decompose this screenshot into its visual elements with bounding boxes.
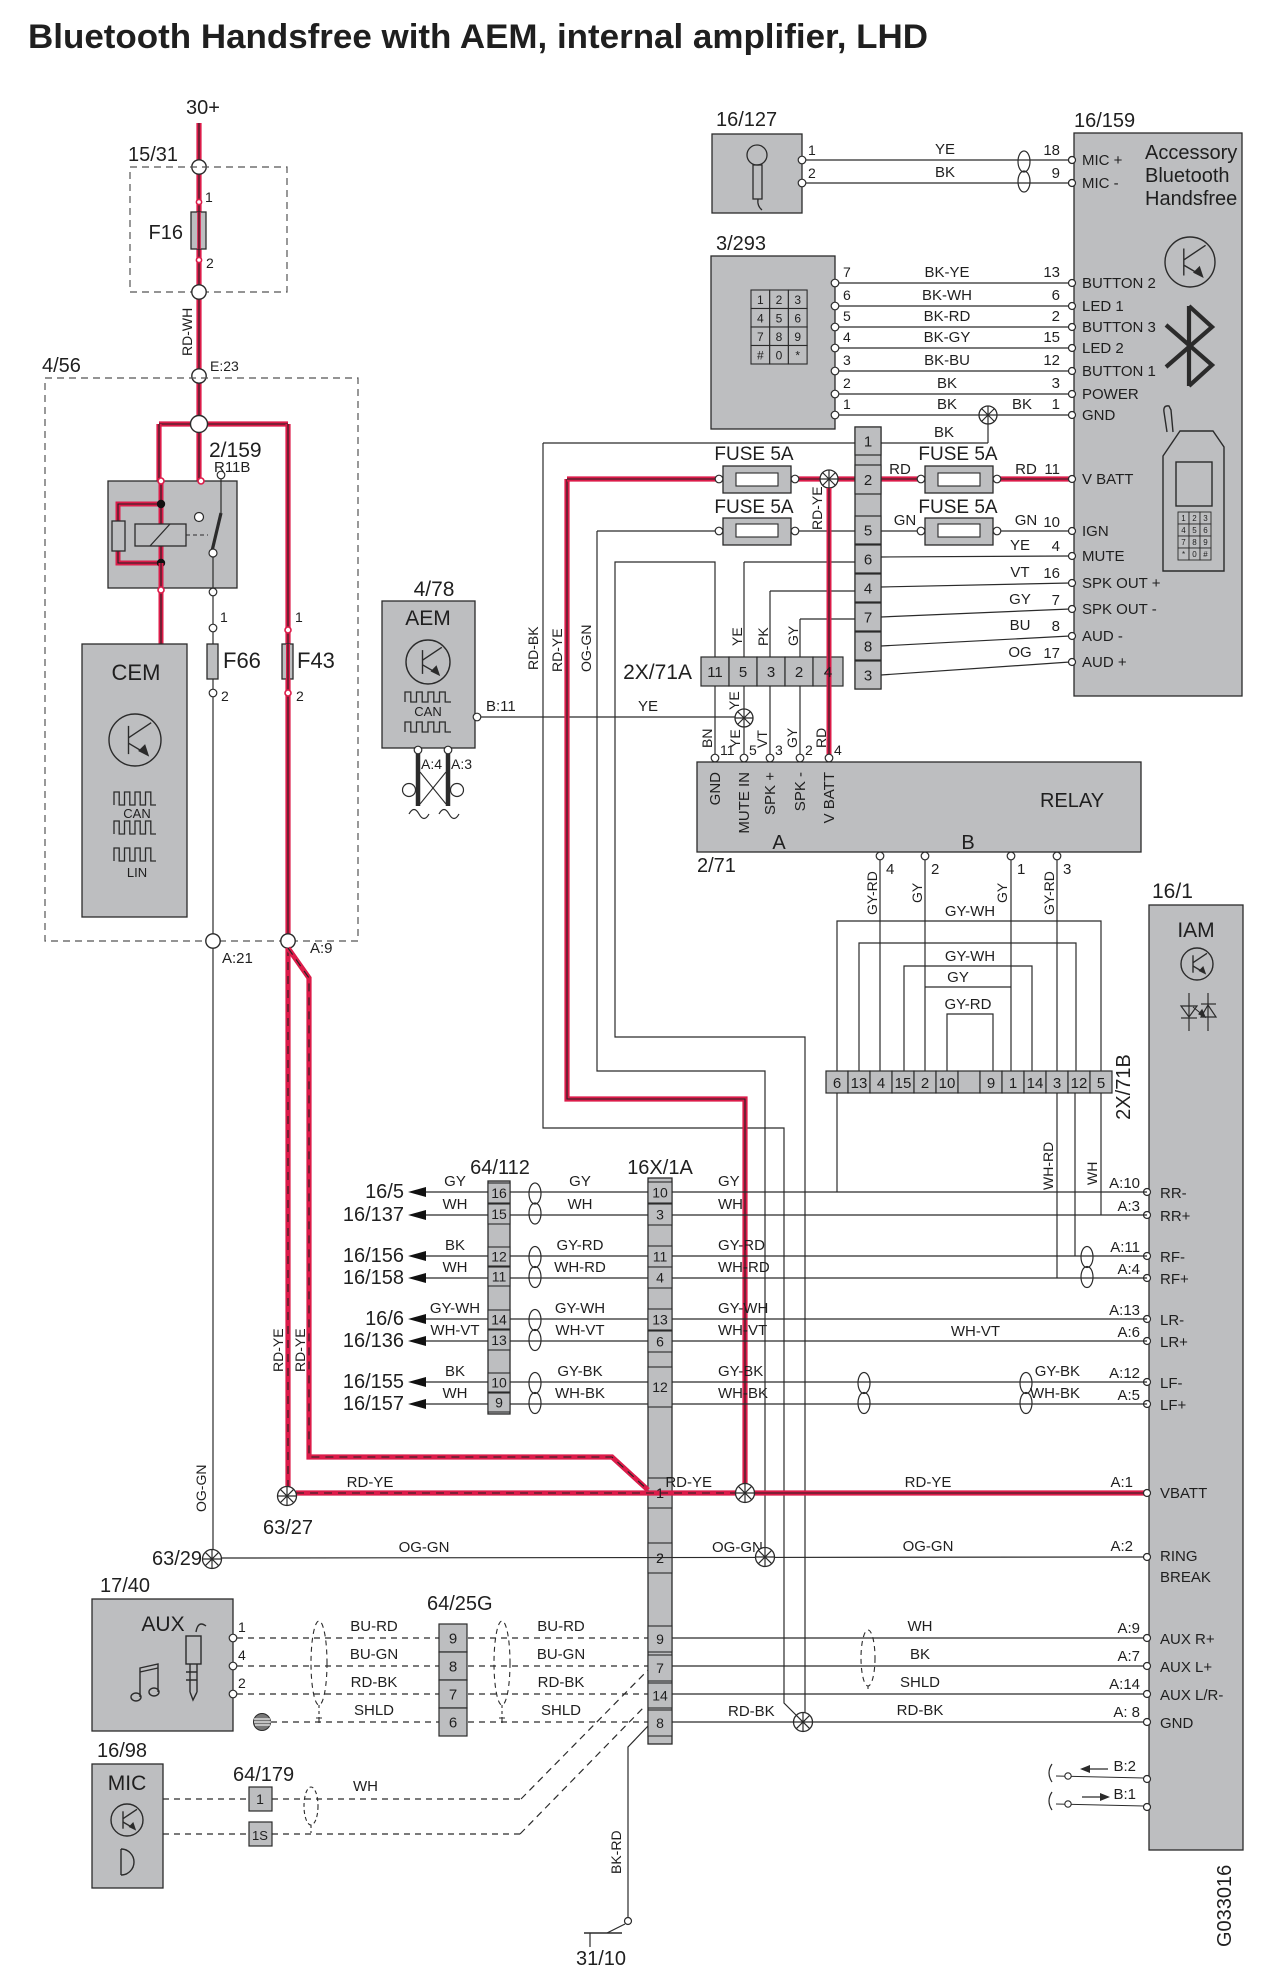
svg-text:6: 6 [1052, 287, 1060, 304]
svg-text:RD-BK: RD-BK [897, 1702, 944, 1719]
svg-text:GY-RD: GY-RD [1041, 871, 1057, 915]
relay pin R11B [217, 471, 225, 479]
svg-text:GND: GND [1160, 1715, 1194, 1732]
svg-text:A:9: A:9 [310, 940, 333, 957]
svg-text:BK: BK [935, 164, 955, 181]
svg-text:1: 1 [864, 434, 872, 451]
svg-text:2: 2 [921, 1075, 929, 1092]
16/127 pins [798, 156, 806, 164]
svg-text:9: 9 [1203, 538, 1208, 547]
svg-text:16/1: 16/1 [1152, 880, 1193, 903]
node A:9 [281, 934, 295, 948]
svg-text:RD-YE: RD-YE [809, 486, 825, 530]
red drop to relay pin4 [827, 488, 832, 757]
svg-text:A:11: A:11 [1110, 1239, 1140, 1256]
svg-text:BK: BK [1012, 396, 1032, 413]
svg-text:AUX L/R-: AUX L/R- [1160, 1687, 1223, 1704]
svg-text:LR+: LR+ [1160, 1334, 1188, 1351]
AUX dashed wires [237, 1637, 439, 1639]
relay suppressor resistor [112, 521, 125, 551]
splice RD-BK [794, 1713, 813, 1732]
svg-text:16/155: 16/155 [343, 1371, 404, 1393]
wire BN gnd vertical [615, 562, 805, 1722]
svg-text:4: 4 [864, 581, 872, 598]
wire IGN row [597, 530, 719, 532]
relay switch dashes [186, 534, 208, 536]
svg-text:A:6: A:6 [1117, 1324, 1140, 1341]
svg-text:AEM: AEM [405, 607, 451, 630]
svg-text:SPK +: SPK + [762, 772, 779, 815]
svg-text:GY-RD: GY-RD [864, 871, 880, 915]
svg-text:OG-GN: OG-GN [399, 1539, 450, 1556]
svg-text:A: A [772, 832, 786, 854]
relay B pins [876, 852, 884, 860]
svg-text:WH-VT: WH-VT [951, 1323, 1000, 1340]
relay bottom pins [158, 587, 164, 593]
svg-text:8: 8 [776, 330, 783, 344]
svg-text:11: 11 [720, 742, 735, 758]
svg-text:9: 9 [987, 1075, 995, 1092]
AEM CAN symbol [405, 692, 451, 702]
svg-text:BK: BK [937, 375, 957, 392]
svg-text:A:10: A:10 [1109, 1175, 1140, 1192]
svg-text:16: 16 [1043, 565, 1060, 582]
svg-text:A:21: A:21 [222, 950, 253, 967]
red trunk VBATT row [567, 476, 1070, 481]
svg-text:3: 3 [1052, 375, 1060, 392]
svg-text:GY: GY [444, 1173, 466, 1190]
svg-text:PK: PK [755, 627, 771, 646]
svg-text:RD-BK: RD-BK [538, 1674, 585, 1691]
svg-text:YE: YE [729, 627, 745, 646]
svg-text:10: 10 [939, 1075, 956, 1092]
wire MIC- BK [806, 182, 1070, 184]
svg-text:2: 2 [206, 255, 214, 271]
svg-text:9: 9 [656, 1631, 664, 1647]
svg-text:B:2: B:2 [1113, 1758, 1136, 1775]
svg-text:4: 4 [1052, 538, 1060, 555]
svg-text:6: 6 [794, 312, 801, 326]
svg-text:12: 12 [1043, 352, 1060, 369]
node on 15/31 top [192, 160, 206, 174]
svg-text:RR-: RR- [1160, 1185, 1187, 1202]
svg-text:16X/1A: 16X/1A [627, 1157, 693, 1179]
svg-text:AUX: AUX [141, 1613, 184, 1636]
mic shield ellipse [304, 1787, 318, 1825]
music note icon [131, 1664, 159, 1701]
svg-text:3: 3 [1053, 1075, 1061, 1092]
svg-text:8: 8 [1192, 538, 1197, 547]
svg-text:#: # [757, 349, 764, 363]
svg-text:Bluetooth: Bluetooth [1145, 165, 1230, 187]
fuse F66 [212, 632, 214, 644]
svg-text:V BATT: V BATT [1082, 471, 1133, 488]
svg-text:10: 10 [652, 1185, 668, 1201]
svg-text:16/98: 16/98 [97, 1740, 147, 1762]
svg-text:15: 15 [491, 1206, 507, 1222]
svg-text:LF-: LF- [1160, 1375, 1183, 1392]
svg-text:WH: WH [353, 1778, 378, 1795]
svg-text:6: 6 [843, 287, 851, 303]
svg-text:1: 1 [808, 142, 816, 158]
svg-text:GY-RD: GY-RD [557, 1237, 604, 1254]
svg-text:8: 8 [864, 639, 872, 656]
svg-text:A:3: A:3 [1117, 1198, 1140, 1215]
svg-text:2: 2 [1052, 308, 1060, 325]
svg-text:WH-VT: WH-VT [430, 1322, 479, 1339]
svg-text:MUTE: MUTE [1082, 548, 1125, 565]
svg-text:RR+: RR+ [1160, 1208, 1191, 1225]
riser PK to strip4 [769, 591, 771, 657]
svg-text:BU-RD: BU-RD [537, 1618, 585, 1635]
relay coil red vertical [159, 504, 164, 563]
svg-text:16/5: 16/5 [365, 1181, 404, 1203]
svg-text:2X/71A: 2X/71A [623, 661, 692, 684]
svg-text:2: 2 [843, 375, 851, 391]
svg-text:B: B [961, 832, 974, 854]
svg-text:GND: GND [707, 772, 724, 806]
svg-text:5: 5 [749, 742, 757, 758]
svg-text:RING: RING [1160, 1548, 1198, 1565]
microphone icon [747, 145, 767, 210]
svg-text:1: 1 [220, 609, 228, 625]
svg-text:1: 1 [843, 396, 851, 412]
svg-text:7: 7 [843, 264, 851, 280]
IAM B:1 arrow [1049, 1792, 1052, 1810]
svg-text:63/29: 63/29 [152, 1548, 202, 1570]
svg-text:RD-YE: RD-YE [905, 1474, 952, 1491]
svg-text:2: 2 [221, 688, 229, 704]
svg-text:FUSE 5A: FUSE 5A [714, 444, 794, 465]
svg-text:F16: F16 [149, 222, 183, 244]
svg-text:WH-RD: WH-RD [554, 1259, 606, 1276]
svg-text:WH-RD: WH-RD [718, 1259, 770, 1276]
wire BK-RD [628, 1726, 648, 1918]
wire AUD- BU row [881, 636, 1070, 646]
svg-text:WH-BK: WH-BK [1030, 1385, 1080, 1402]
relay 2/71 box [697, 762, 1141, 852]
svg-text:31/10: 31/10 [576, 1948, 626, 1970]
svg-text:A:7: A:7 [1117, 1648, 1140, 1665]
wire MIC+ YE [806, 159, 1070, 161]
svg-text:2: 2 [808, 165, 816, 181]
CEM LIN symbol [114, 848, 156, 861]
svg-text:BK-RD: BK-RD [608, 1830, 624, 1874]
svg-text:5: 5 [843, 308, 851, 324]
fuse F43 [285, 627, 291, 633]
svg-text:BUTTON 3: BUTTON 3 [1082, 319, 1156, 336]
svg-text:OG-GN: OG-GN [578, 625, 594, 672]
AEM shielded pair [416, 754, 421, 806]
svg-text:3: 3 [1063, 861, 1071, 878]
row VBATT RD-YE [296, 1490, 745, 1495]
svg-text:11: 11 [707, 664, 723, 681]
svg-text:GY-WH: GY-WH [430, 1300, 480, 1317]
MIC dashed wires [163, 1798, 249, 1800]
svg-text:11: 11 [492, 1269, 507, 1285]
relay 2/71 downs [714, 686, 716, 757]
svg-text:IAM: IAM [1177, 919, 1214, 942]
svg-text:7: 7 [449, 1687, 457, 1704]
svg-text:VBATT: VBATT [1160, 1485, 1207, 1502]
svg-text:MIC -: MIC - [1082, 175, 1119, 192]
legs below 2X/71B [836, 1093, 838, 1192]
svg-text:A: 8: A: 8 [1113, 1704, 1140, 1721]
svg-text:3: 3 [767, 664, 775, 681]
svg-text:6: 6 [449, 1715, 457, 1732]
svg-text:2: 2 [656, 1550, 664, 1566]
wire BK drop to connector [987, 424, 989, 443]
svg-text:16/136: 16/136 [343, 1330, 404, 1352]
svg-text:OG: OG [1008, 644, 1031, 661]
svg-text:WH-VT: WH-VT [555, 1322, 604, 1339]
connector strip 16/159 [855, 427, 881, 689]
AUX shield ground [254, 1714, 272, 1731]
svg-text:9: 9 [1052, 165, 1060, 182]
svg-text:GY: GY [947, 969, 969, 986]
svg-text:GY-BK: GY-BK [1035, 1363, 1080, 1380]
svg-text:4: 4 [843, 329, 851, 345]
mic diagonals [521, 1670, 648, 1799]
svg-text:2/71: 2/71 [697, 855, 736, 877]
svg-text:3/293: 3/293 [716, 233, 766, 255]
svg-text:3: 3 [794, 293, 801, 307]
svg-text:YE: YE [935, 141, 955, 158]
svg-text:5: 5 [1097, 1075, 1105, 1092]
wire F43 to A:9 red [285, 679, 290, 934]
svg-text:9: 9 [794, 330, 801, 344]
AEM pins A:4 A:3 [414, 746, 422, 754]
svg-text:GY-RD: GY-RD [718, 1237, 765, 1254]
svg-text:GY: GY [1009, 591, 1031, 608]
svg-text:16/127: 16/127 [716, 109, 777, 131]
svg-text:16/137: 16/137 [343, 1204, 404, 1226]
svg-text:LED 1: LED 1 [1082, 298, 1124, 315]
svg-text:2: 2 [864, 472, 872, 489]
wire 30+ red feed [196, 123, 201, 424]
junction 30+ split [159, 421, 288, 426]
svg-text:12: 12 [491, 1249, 507, 1265]
svg-text:17: 17 [1043, 645, 1060, 662]
svg-text:RD: RD [1015, 461, 1037, 478]
svg-text:FUSE 5A: FUSE 5A [918, 444, 998, 465]
svg-text:WH: WH [443, 1385, 468, 1402]
svg-text:YE: YE [1010, 537, 1030, 554]
svg-text:RF+: RF+ [1160, 1271, 1189, 1288]
svg-text:11: 11 [1044, 461, 1060, 478]
svg-text:GN: GN [894, 512, 917, 529]
node below F16 [192, 285, 206, 299]
svg-text:6: 6 [833, 1075, 841, 1092]
svg-text:BK-RD: BK-RD [924, 308, 971, 325]
svg-text:WH: WH [443, 1196, 468, 1213]
svg-text:GY: GY [718, 1173, 740, 1190]
svg-text:18: 18 [1043, 142, 1060, 159]
wire AUD+ OG row [881, 662, 1070, 675]
svg-text:4/56: 4/56 [42, 355, 81, 377]
svg-text:GY-WH: GY-WH [718, 1300, 768, 1317]
relay coil loop red [118, 481, 161, 563]
svg-text:SHLD: SHLD [541, 1702, 581, 1719]
svg-text:Accessory: Accessory [1145, 142, 1237, 164]
svg-text:YE: YE [638, 698, 658, 715]
phone icon [1163, 406, 1224, 571]
keypad pins and wires [831, 279, 839, 287]
wire F66 to A:21 [212, 697, 214, 934]
relay B wires down [879, 860, 881, 1071]
svg-text:OG-GN: OG-GN [903, 1538, 954, 1555]
svg-text:30+: 30+ [186, 97, 220, 119]
svg-text:0: 0 [776, 349, 783, 363]
svg-text:2: 2 [1192, 514, 1197, 523]
svg-text:*: * [795, 349, 800, 363]
svg-text:E:23: E:23 [210, 358, 239, 374]
svg-text:G033016: G033016 [1214, 1865, 1236, 1947]
wire SPKOUT- GY row [800, 618, 855, 620]
svg-text:64/179: 64/179 [233, 1764, 294, 1786]
svg-text:BN: BN [699, 729, 715, 748]
IAM transistor icon [1181, 948, 1213, 980]
svg-text:RD-YE: RD-YE [270, 1328, 286, 1372]
svg-text:*: * [1182, 550, 1185, 559]
svg-text:6: 6 [1203, 526, 1208, 535]
svg-text:1: 1 [656, 1485, 664, 1501]
svg-text:5: 5 [864, 523, 872, 540]
shield ellipse right [861, 1630, 875, 1686]
svg-text:2: 2 [296, 688, 304, 704]
bluetooth symbol [1166, 306, 1212, 386]
svg-text:2X/71B: 2X/71B [1113, 1054, 1135, 1120]
svg-text:CAN: CAN [414, 704, 441, 719]
svg-text:BU-GN: BU-GN [350, 1646, 398, 1663]
ground 31/10 [607, 1924, 625, 1933]
svg-text:WH-RD: WH-RD [1040, 1142, 1056, 1190]
svg-text:BK: BK [445, 1237, 465, 1254]
svg-text:1: 1 [1052, 396, 1060, 413]
svg-text:Handsfree: Handsfree [1145, 188, 1237, 210]
AUX dashed wires right [468, 1637, 648, 1639]
svg-text:13: 13 [491, 1332, 507, 1348]
svg-text:POWER: POWER [1082, 386, 1139, 403]
svg-text:BUTTON 2: BUTTON 2 [1082, 275, 1156, 292]
svg-text:4: 4 [824, 664, 832, 681]
svg-text:14: 14 [491, 1312, 507, 1328]
svg-text:FUSE 5A: FUSE 5A [714, 497, 794, 518]
svg-text:WH: WH [443, 1259, 468, 1276]
svg-text:AUX R+: AUX R+ [1160, 1631, 1215, 1648]
svg-text:CAN: CAN [123, 806, 150, 821]
wire MUTE YE row [744, 561, 855, 563]
svg-text:7: 7 [864, 610, 872, 627]
svg-text:1: 1 [1017, 861, 1025, 878]
svg-text:OG-GN: OG-GN [712, 1539, 763, 1556]
svg-text:2: 2 [931, 861, 939, 878]
svg-text:RD-BK: RD-BK [728, 1703, 775, 1720]
svg-text:Bluetooth Handsfree with AEM,: Bluetooth Handsfree with AEM, internal a… [28, 18, 928, 56]
svg-text:15/31: 15/31 [128, 144, 178, 166]
svg-text:SPK OUT -: SPK OUT - [1082, 601, 1157, 618]
svg-text:AUD -: AUD - [1082, 628, 1123, 645]
svg-text:9: 9 [495, 1395, 503, 1411]
svg-text:BK: BK [445, 1363, 465, 1380]
svg-text:7: 7 [1052, 592, 1060, 609]
svg-text:WH-BK: WH-BK [555, 1385, 605, 1402]
svg-text:4: 4 [834, 742, 842, 758]
svg-text:SPK -: SPK - [792, 772, 809, 811]
svg-text:10: 10 [1043, 514, 1060, 531]
svg-text:LED 2: LED 2 [1082, 340, 1124, 357]
svg-text:SHLD: SHLD [900, 1674, 940, 1691]
MIC capsule icon [121, 1849, 134, 1875]
svg-text:GY-BK: GY-BK [718, 1363, 763, 1380]
splice RD-YE on trunk [820, 470, 838, 488]
svg-text:RD-BK: RD-BK [525, 626, 541, 670]
riser GY to strip7 [799, 619, 801, 657]
svg-text:4: 4 [238, 1647, 246, 1663]
svg-text:WH: WH [1084, 1162, 1100, 1185]
svg-text:B:1: B:1 [1113, 1786, 1136, 1803]
svg-text:GY-WH: GY-WH [945, 903, 995, 920]
svg-text:SHLD: SHLD [354, 1702, 394, 1719]
svg-text:63/27: 63/27 [263, 1517, 313, 1539]
svg-text:A:5: A:5 [1117, 1387, 1140, 1404]
svg-text:RD-BK: RD-BK [351, 1674, 398, 1691]
svg-text:1: 1 [1009, 1075, 1017, 1092]
svg-text:BK-BU: BK-BU [924, 352, 970, 369]
svg-text:15: 15 [895, 1075, 912, 1092]
IAM speaker pins [1144, 1189, 1151, 1196]
relay switch blade [212, 513, 221, 551]
svg-text:WH-VT: WH-VT [718, 1322, 767, 1339]
riser YE to strip6 [743, 562, 745, 657]
svg-text:A:12: A:12 [1109, 1365, 1140, 1382]
svg-text:A:1: A:1 [1110, 1474, 1133, 1491]
svg-text:16: 16 [491, 1185, 507, 1201]
svg-text:BK-YE: BK-YE [924, 264, 969, 281]
svg-text:2: 2 [238, 1675, 246, 1691]
svg-text:BK-GY: BK-GY [924, 329, 971, 346]
svg-text:GY-WH: GY-WH [945, 948, 995, 965]
svg-text:3: 3 [1203, 514, 1208, 523]
AEM pin B:11 [473, 713, 481, 721]
svg-text:11: 11 [653, 1249, 668, 1265]
svg-text:BU: BU [1010, 617, 1031, 634]
svg-text:BK: BK [937, 396, 957, 413]
16/159 transistor icon [1165, 237, 1215, 287]
svg-text:GN: GN [1015, 512, 1038, 529]
svg-text:15: 15 [1043, 329, 1060, 346]
svg-text:8: 8 [449, 1659, 457, 1676]
svg-text:64/25G: 64/25G [427, 1593, 493, 1615]
svg-text:OG-GN: OG-GN [193, 1465, 209, 1512]
svg-text:BU-RD: BU-RD [350, 1618, 398, 1635]
svg-text:4: 4 [1181, 526, 1186, 535]
svg-text:2: 2 [795, 664, 803, 681]
svg-text:4: 4 [877, 1075, 885, 1092]
svg-text:10: 10 [491, 1375, 507, 1391]
svg-text:CEM: CEM [112, 660, 161, 685]
wire RD-YE from A:9 left [285, 948, 290, 1496]
svg-text:BUTTON 1: BUTTON 1 [1082, 363, 1156, 380]
svg-text:RD-YE: RD-YE [665, 1474, 712, 1491]
svg-text:FUSE 5A: FUSE 5A [918, 497, 998, 518]
svg-text:A:2: A:2 [1110, 1538, 1133, 1555]
svg-text:1: 1 [757, 293, 764, 307]
AUX rows to IAM [672, 1637, 1147, 1639]
svg-text:BK: BK [934, 424, 954, 441]
svg-text:A:9: A:9 [1117, 1620, 1140, 1637]
svg-text:8: 8 [1052, 618, 1060, 635]
